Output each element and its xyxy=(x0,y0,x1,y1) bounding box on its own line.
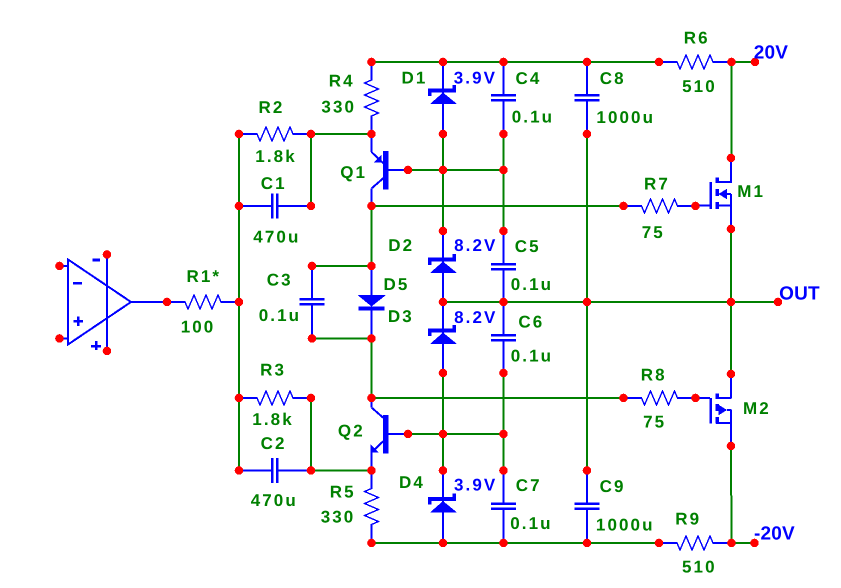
svg-text:330: 330 xyxy=(321,98,356,117)
svg-text:D4: D4 xyxy=(399,473,425,492)
svg-text:1.8k: 1.8k xyxy=(252,410,293,429)
svg-text:D1: D1 xyxy=(402,69,428,88)
svg-text:470u: 470u xyxy=(253,228,300,247)
svg-text:Q2: Q2 xyxy=(338,422,365,441)
svg-text:R9: R9 xyxy=(675,510,701,529)
svg-text:M1: M1 xyxy=(737,182,765,201)
svg-text:510: 510 xyxy=(682,77,717,96)
svg-text:R8: R8 xyxy=(641,366,667,385)
svg-text:1000u: 1000u xyxy=(596,516,655,535)
svg-text:R1*: R1* xyxy=(187,267,222,286)
svg-text:C6: C6 xyxy=(518,313,544,332)
svg-text:C9: C9 xyxy=(600,477,626,496)
svg-text:C7: C7 xyxy=(516,476,542,495)
svg-text:8.2V: 8.2V xyxy=(454,236,497,255)
svg-text:R6: R6 xyxy=(684,29,710,48)
svg-text:8.2V: 8.2V xyxy=(454,308,497,327)
svg-text:M2: M2 xyxy=(743,399,771,418)
svg-text:0.1u: 0.1u xyxy=(511,347,553,366)
svg-text:510: 510 xyxy=(682,558,717,577)
svg-text:R7: R7 xyxy=(644,175,670,194)
svg-text:C2: C2 xyxy=(261,434,287,453)
svg-text:C1: C1 xyxy=(261,174,287,193)
svg-text:C4: C4 xyxy=(516,69,542,88)
svg-text:0.1u: 0.1u xyxy=(259,306,301,325)
svg-text:C5: C5 xyxy=(515,237,541,256)
svg-text:1000u: 1000u xyxy=(596,108,655,127)
svg-text:0.1u: 0.1u xyxy=(511,275,553,294)
svg-text:R4: R4 xyxy=(329,72,355,91)
svg-text:75: 75 xyxy=(643,413,666,432)
svg-text:R3: R3 xyxy=(260,360,286,379)
svg-text:470u: 470u xyxy=(251,491,298,510)
svg-text:-20V: -20V xyxy=(754,523,795,544)
svg-text:R2: R2 xyxy=(259,98,285,117)
svg-text:20V: 20V xyxy=(754,43,789,64)
svg-text:75: 75 xyxy=(642,223,665,242)
svg-text:0.1u: 0.1u xyxy=(510,514,552,533)
svg-text:D5: D5 xyxy=(384,275,410,294)
svg-text:100: 100 xyxy=(181,318,216,337)
svg-text:Q1: Q1 xyxy=(340,163,367,182)
svg-text:D3: D3 xyxy=(388,307,414,326)
svg-text:330: 330 xyxy=(321,508,356,527)
svg-text:C8: C8 xyxy=(600,69,626,88)
svg-text:D2: D2 xyxy=(388,236,414,255)
svg-text:OUT: OUT xyxy=(779,283,820,304)
svg-text:3.9V: 3.9V xyxy=(454,476,497,495)
svg-text:R5: R5 xyxy=(330,483,356,502)
svg-text:C3: C3 xyxy=(267,271,293,290)
svg-text:3.9V: 3.9V xyxy=(454,69,497,88)
svg-text:1.8k: 1.8k xyxy=(255,147,296,166)
svg-text:0.1u: 0.1u xyxy=(512,108,554,127)
